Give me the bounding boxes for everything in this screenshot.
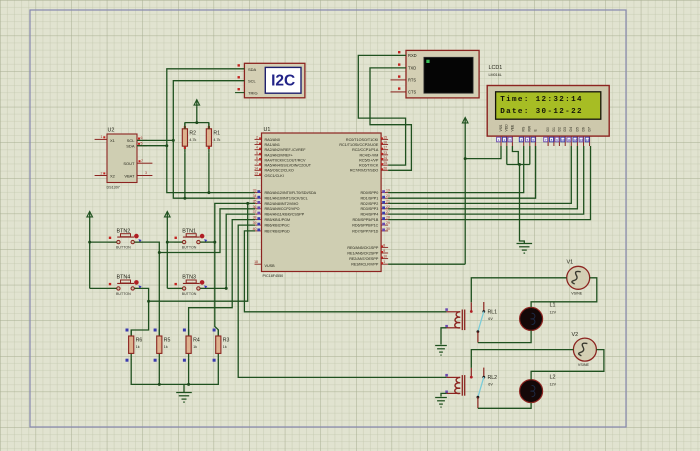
svg-text:RE1/AN6/CK2SPP: RE1/AN6/CK2SPP	[347, 251, 378, 255]
wire VCC to BTN1	[167, 241, 182, 243]
svg-text:X1: X1	[110, 138, 116, 143]
svg-text:RA3/AN3/VREF+: RA3/AN3/VREF+	[265, 153, 293, 157]
svg-text:5: 5	[141, 142, 143, 146]
junction BTN1 net	[213, 241, 216, 244]
svg-text:SOUT: SOUT	[123, 161, 135, 166]
gnd rail under LCD	[507, 164, 530, 166]
junction VCC-BTN2	[88, 241, 91, 244]
wire V2 to RL2 common	[471, 350, 573, 368]
wire resistor gnd rail	[131, 359, 218, 384]
wire U2 SCL out	[137, 139, 173, 141]
svg-text:RC7/RX/DT/SDO: RC7/RX/DT/SDO	[350, 169, 379, 173]
svg-text:RL1: RL1	[488, 309, 498, 315]
button BTN1	[174, 228, 208, 249]
sine source V1	[567, 260, 590, 296]
svg-text:4: 4	[256, 146, 258, 150]
svg-text:RL2: RL2	[488, 375, 498, 381]
svg-text:13: 13	[579, 138, 583, 142]
junction R2-SCL	[183, 197, 186, 200]
svg-text:RE3/MCLR/VPP: RE3/MCLR/VPP	[351, 263, 379, 267]
svg-text:R6: R6	[136, 338, 143, 344]
wire V2 to L2 top	[531, 350, 604, 380]
wire LCD VDD to VCC	[465, 146, 501, 159]
svg-text:6V: 6V	[488, 317, 493, 321]
wire LCD D4 to RD2	[388, 146, 571, 203]
junction top rail	[195, 121, 198, 124]
wire V1 to RL1 common	[471, 278, 566, 303]
wire L1 bottom to RL1 contact	[478, 330, 531, 342]
junction gnd rail	[518, 163, 521, 166]
svg-text:V2: V2	[572, 332, 579, 338]
wire LCD D7 to RD5	[388, 146, 590, 220]
svg-text:5: 5	[256, 151, 258, 155]
svg-text:RC1/T1OSI/CCP2/UOE: RC1/T1OSI/CCP2/UOE	[339, 143, 378, 147]
button BTN3	[174, 275, 208, 296]
wire LCD E to RD1	[388, 146, 535, 198]
svg-text:RE2/AN7/OESPP: RE2/AN7/OESPP	[349, 257, 379, 261]
svg-text:3: 3	[145, 171, 147, 175]
junction R4 rail	[187, 383, 190, 386]
lamp L1	[520, 303, 557, 331]
svg-text:29: 29	[386, 221, 390, 225]
sine source V2	[572, 332, 597, 367]
svg-text:L2: L2	[550, 375, 556, 381]
ground symbol RL1	[435, 346, 447, 356]
wire BTN4 net to RB2	[149, 203, 248, 301]
resistor R4 1k	[183, 329, 200, 362]
svg-text:4.7k: 4.7k	[189, 138, 196, 142]
junction SCL	[172, 139, 175, 142]
svg-text:16: 16	[383, 141, 387, 145]
wire LCD D5 to RD3	[388, 146, 577, 209]
svg-text:LM016L: LM016L	[489, 73, 502, 77]
wire LCD D6 to RD4	[388, 146, 584, 214]
resistor R2 4.7k	[182, 122, 196, 152]
svg-text:8: 8	[383, 243, 385, 247]
junction BTN4 net	[147, 300, 150, 303]
wire R5 bottom	[158, 359, 160, 384]
svg-text:RD2/SPP2: RD2/SPP2	[360, 202, 378, 206]
LCD1 LM016L display	[487, 65, 609, 146]
power arrow VCC near LCD	[462, 118, 468, 265]
svg-text:SCL: SCL	[248, 79, 257, 84]
svg-text:R1: R1	[213, 130, 220, 136]
svg-text:6: 6	[141, 136, 143, 140]
MCU U1 PIC18F4550	[253, 127, 390, 278]
wire BTN4 to R6	[131, 288, 148, 336]
svg-text:1k: 1k	[136, 345, 140, 349]
svg-text:33: 33	[253, 189, 257, 193]
svg-text:23: 23	[383, 151, 387, 155]
virtual terminal	[391, 50, 480, 98]
wire R1 bottom	[208, 153, 210, 193]
svg-text:RTS: RTS	[408, 78, 416, 83]
wire RB2 to R3	[215, 203, 255, 336]
svg-text:RS: RS	[522, 126, 526, 131]
svg-text:CTS: CTS	[408, 90, 416, 95]
wire I2C SCL to bus	[173, 81, 244, 141]
svg-text:VBAT: VBAT	[124, 173, 135, 178]
svg-text:BUTTON: BUTTON	[182, 292, 197, 296]
svg-text:VSINE: VSINE	[571, 291, 583, 295]
svg-text:RD7/SPP7/P1D: RD7/SPP7/P1D	[352, 229, 378, 233]
wire SDA vertical to RB0	[167, 146, 255, 193]
svg-text:TXD: TXD	[408, 66, 416, 71]
svg-text:RE0/AN5/CK1SPP: RE0/AN5/CK1SPP	[347, 246, 378, 250]
svg-text:U2: U2	[108, 128, 115, 134]
svg-text:RB4/AN11/KBI0/CSSPP: RB4/AN11/KBI0/CSSPP	[265, 213, 305, 217]
wire terminal RXD to U1 TX	[358, 55, 406, 165]
power arrow VCC left	[87, 212, 93, 289]
svg-text:7: 7	[256, 161, 258, 165]
wire SCL vertical to RB1	[173, 140, 255, 198]
svg-text:12V: 12V	[550, 311, 557, 315]
wire RB4 vertical	[226, 214, 255, 288]
svg-text:14: 14	[586, 138, 590, 142]
svg-text:VEE: VEE	[510, 124, 514, 132]
svg-text:25: 25	[383, 161, 387, 165]
RTC U2 DS1307	[95, 128, 153, 190]
resistor R5 1k	[154, 329, 171, 362]
svg-text:RD0/SPP0: RD0/SPP0	[360, 191, 378, 195]
svg-text:TRIG: TRIG	[248, 90, 258, 95]
lamp L2	[520, 375, 557, 403]
power arrow VCC mid	[165, 212, 171, 289]
resistor R1 4.7k	[206, 122, 220, 152]
wire RB5 to R4	[189, 220, 255, 336]
svg-text:D7: D7	[588, 127, 592, 131]
svg-text:SDA: SDA	[248, 67, 257, 72]
svg-text:RA5/AN4/SS/LVDIN/C2OUT: RA5/AN4/SS/LVDIN/C2OUT	[265, 164, 312, 168]
wire gnd rail down	[520, 165, 525, 244]
svg-text:12: 12	[573, 138, 577, 142]
power arrow VCC above R1 R2	[194, 100, 200, 123]
svg-text:D2: D2	[557, 127, 561, 131]
svg-text:RD3/SPP3: RD3/SPP3	[360, 207, 378, 211]
svg-text:26: 26	[383, 166, 387, 170]
relay RL1	[445, 302, 497, 343]
svg-text:RD1/SPP1: RD1/SPP1	[360, 197, 378, 201]
sheet border frame	[30, 10, 626, 427]
svg-text:1k: 1k	[164, 345, 168, 349]
svg-text:18: 18	[254, 260, 258, 264]
svg-text:DS1307: DS1307	[107, 186, 120, 190]
wire RL2 coil gnd	[441, 393, 447, 396]
svg-text:24: 24	[383, 156, 387, 160]
svg-text:RD4/SPP4: RD4/SPP4	[360, 213, 378, 217]
wire LCD RW to gnd rail	[529, 146, 531, 165]
svg-text:RB6/KBI2/PGC: RB6/KBI2/PGC	[265, 224, 291, 228]
junction VDD-VCC	[464, 157, 467, 160]
svg-text:RB5/KBI1/PGM: RB5/KBI1/PGM	[265, 218, 291, 222]
svg-text:RA2/AN2/VREF-/CVREF: RA2/AN2/VREF-/CVREF	[265, 148, 307, 152]
svg-text:SCL: SCL	[127, 138, 136, 143]
wire R4 bottom	[188, 359, 190, 384]
junction VCC-BTN1	[166, 241, 169, 244]
svg-text:1k: 1k	[223, 345, 227, 349]
ground symbol LCD	[517, 244, 533, 254]
svg-text:D4: D4	[569, 127, 573, 131]
svg-text:RC5/D+/VP: RC5/D+/VP	[359, 158, 379, 162]
junction BTN3-RB4	[225, 287, 228, 290]
svg-text:RC4/D-/VM: RC4/D-/VM	[359, 153, 378, 157]
wire LCD VSS to gnd rail	[506, 146, 508, 165]
svg-text:7: 7	[141, 159, 143, 163]
svg-text:L1: L1	[550, 303, 556, 309]
wire BTN2 to R5	[135, 242, 160, 336]
I2C debugger	[235, 63, 305, 98]
resistor R3 1k	[213, 329, 230, 362]
wire I2C SDA to bus	[167, 69, 245, 146]
junction R5 rail	[158, 383, 161, 386]
svg-text:10: 10	[383, 255, 387, 259]
svg-text:SDA: SDA	[126, 143, 135, 148]
wire LCD VEE jog to gnd rail	[512, 146, 518, 165]
ground symbol RL2	[435, 398, 447, 408]
svg-text:BUTTON: BUTTON	[116, 292, 131, 296]
junction BTN2 net	[158, 251, 161, 254]
svg-text:15: 15	[383, 135, 387, 139]
svg-text:RD5/SPP5/P1B: RD5/SPP5/P1B	[352, 218, 378, 222]
svg-text:U1: U1	[264, 127, 271, 133]
wire L2 bottom to RL2 contact	[478, 403, 531, 409]
svg-text:RB2/AN8/INT2/VMO: RB2/AN8/INT2/VMO	[265, 202, 299, 206]
svg-text:R4: R4	[193, 338, 200, 344]
svg-text:I2C: I2C	[271, 73, 295, 90]
svg-text:30: 30	[386, 227, 390, 231]
svg-text:VSS: VSS	[499, 124, 503, 132]
svg-text:RA0/AN0: RA0/AN0	[265, 138, 280, 142]
wire V1 to L1 top	[531, 278, 597, 308]
svg-text:RW: RW	[528, 125, 532, 131]
svg-text:R5: R5	[164, 338, 171, 344]
svg-text:D5: D5	[575, 127, 579, 131]
wire BTN3 to RB4	[200, 287, 226, 289]
svg-text:RC6/TX/CK: RC6/TX/CK	[359, 164, 379, 168]
svg-text:RB7/KBI3/PGD: RB7/KBI3/PGD	[265, 229, 291, 233]
svg-text:VSINE: VSINE	[578, 363, 590, 367]
junction SDA	[165, 144, 168, 147]
svg-text:BUTTON: BUTTON	[182, 246, 197, 250]
svg-text:BUTTON: BUTTON	[116, 246, 131, 250]
svg-text:D1: D1	[552, 127, 556, 131]
svg-text:RD6/SPP6/P1C: RD6/SPP6/P1C	[352, 224, 378, 228]
svg-text:1: 1	[101, 135, 103, 139]
svg-text:R2: R2	[189, 130, 196, 136]
svg-text:1: 1	[383, 260, 385, 264]
svg-text:LCD1: LCD1	[489, 65, 503, 71]
svg-text:RA1/AN1: RA1/AN1	[265, 143, 280, 147]
svg-text:17: 17	[383, 146, 387, 150]
svg-text:RC0/T1OSO/T1CKI: RC0/T1OSO/T1CKI	[346, 138, 378, 142]
svg-text:VDD: VDD	[505, 124, 509, 132]
wire VCC to BTN2	[90, 241, 117, 243]
svg-text:2: 2	[256, 135, 258, 139]
svg-text:11: 11	[567, 138, 570, 142]
wire LCD RS to RD0	[388, 146, 524, 193]
svg-text:RC2/CCP1/P1A: RC2/CCP1/P1A	[352, 148, 379, 152]
svg-text:Time: 12:32:14: Time: 12:32:14	[500, 96, 583, 104]
svg-text:D6: D6	[581, 127, 585, 131]
svg-text:12V: 12V	[550, 383, 557, 387]
svg-text:4.7k: 4.7k	[213, 138, 220, 142]
wire VCC to BTN4	[90, 287, 117, 289]
svg-text:X2: X2	[110, 173, 116, 178]
wire U2 SDA out	[137, 145, 167, 147]
svg-text:D0: D0	[546, 127, 550, 131]
junction R1-SDA	[207, 191, 210, 194]
svg-text:RB1/AN10/INT1/SCK/SCL: RB1/AN10/INT1/SCK/SCL	[265, 197, 308, 201]
button BTN4	[108, 275, 142, 296]
ground symbol resistors	[176, 384, 192, 402]
svg-text:13: 13	[254, 171, 258, 175]
svg-text:OSC1/CLKI: OSC1/CLKI	[265, 174, 284, 178]
svg-text:Date: 30-12-22: Date: 30-12-22	[500, 108, 583, 116]
svg-text:3: 3	[256, 141, 258, 145]
svg-text:6: 6	[256, 156, 258, 160]
wire RB3 to BTN2 net	[159, 209, 255, 253]
svg-text:R3: R3	[223, 338, 230, 344]
wire RB7 to RL1	[244, 231, 446, 312]
resistor R6 1k	[126, 329, 143, 362]
svg-text:2: 2	[101, 171, 103, 175]
wire VCC to BTN3	[167, 287, 182, 289]
svg-text:1k: 1k	[193, 345, 197, 349]
svg-text:VUSB: VUSB	[265, 264, 276, 268]
svg-text:PIC18F4550: PIC18F4550	[263, 274, 284, 278]
svg-text:6V: 6V	[488, 383, 493, 387]
wire R2 bottom	[184, 153, 186, 199]
svg-text:RB3/AN9/CCP2/VPO: RB3/AN9/CCP2/VPO	[265, 207, 300, 211]
svg-text:D3: D3	[563, 127, 567, 131]
svg-text:9: 9	[383, 249, 385, 253]
svg-text:RA6/OSC2/CLKO: RA6/OSC2/CLKO	[265, 169, 294, 173]
wire R2-R1 top rail	[185, 123, 209, 129]
junction RB2-BTN4	[246, 202, 249, 205]
wire RL1 coil gnd	[441, 328, 447, 345]
svg-text:RXD: RXD	[408, 53, 417, 58]
svg-text:RB0/AN12/INT0/FLT0/SDI/SDA: RB0/AN12/INT0/FLT0/SDI/SDA	[265, 191, 317, 195]
wire RB6 to RL2	[238, 225, 446, 377]
button BTN2	[108, 228, 142, 249]
wire U1 MCLR to VCC	[388, 263, 465, 265]
svg-text:34: 34	[253, 194, 257, 198]
svg-text:14: 14	[254, 166, 258, 170]
wire BTN1 to RB2 net	[200, 241, 215, 243]
svg-text:RA4/T0CKI/C1OUT/RCV: RA4/T0CKI/C1OUT/RCV	[265, 158, 307, 162]
relay RL2	[445, 368, 497, 409]
svg-text:10: 10	[561, 138, 565, 142]
wire terminal TXD to U1 RX	[370, 68, 411, 170]
svg-text:V1: V1	[567, 260, 574, 266]
